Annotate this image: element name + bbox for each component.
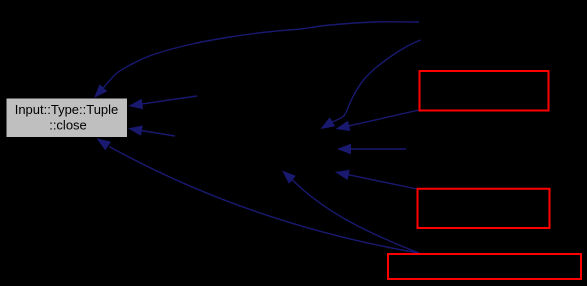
wire: edge from first red node to middle node <box>348 110 419 126</box>
node Input::Type::Tuple::close (current node, grey) <box>6 98 128 138</box>
arrowhead of edge E7 <box>97 138 112 150</box>
wire: horizontal edge into middle node <box>350 148 406 150</box>
wire: edge from second red node to middle node <box>348 175 417 189</box>
wire: edge from top-right node curving down to middle node <box>333 40 421 122</box>
wire: long edge from bottom red node to Input::Type::Tuple::close <box>109 147 419 253</box>
node: truncated caller (red box 2) <box>418 189 550 228</box>
svg-text:Input::Type::Tuple: Input::Type::Tuple <box>15 102 119 117</box>
node: truncated caller (red box 3, bottom) <box>388 254 581 279</box>
arrowhead of edge E6 <box>282 171 296 184</box>
arrowhead of edge E1 <box>94 84 107 98</box>
arrowhead of edge E4 <box>337 144 351 154</box>
wire: short edge into Input::Type::Tuple::close upper right <box>141 96 197 104</box>
wire: short edge into Input::Type::Tuple::close lower right <box>141 131 175 137</box>
wire: edge from bottom red node curving to middle node <box>292 179 419 253</box>
arrowhead of edge E3 <box>336 121 351 131</box>
arrowhead of edge B2 <box>128 126 143 136</box>
svg-text:::close: ::close <box>49 118 87 133</box>
arrowhead of edge E5 <box>335 170 350 180</box>
node: truncated caller (red box 1) <box>420 71 549 111</box>
arrowhead of edge B1 <box>129 99 144 109</box>
arrowhead of edge E2 <box>321 117 336 129</box>
wire: edge from top-right node to Input::Type::Tuple::close (big top curve) <box>103 22 419 89</box>
